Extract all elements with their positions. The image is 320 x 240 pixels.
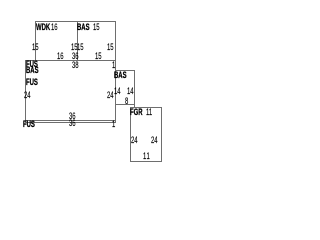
FGR box top edge <box>130 107 161 108</box>
label "WDK" at (36,22.5) <box>36 23 50 32</box>
label "FUS" at (23,119.8) <box>23 120 35 129</box>
small BAS box bottom edge <box>115 104 135 105</box>
small BAS box top edge <box>115 70 135 71</box>
big box top edge <box>25 60 115 61</box>
label "14" at (114,86.8) <box>114 87 121 96</box>
label "15" at (77.2,43) <box>77 43 84 52</box>
label "24" at (151,136) <box>151 136 158 145</box>
big box left edge <box>25 60 26 123</box>
label "24" at (23.7,90.8) <box>24 91 31 100</box>
label "15" at (32.3,43) <box>32 43 39 52</box>
label "BAS" at (25.5,66.3) <box>26 66 39 75</box>
label "1" at (111.9,119.8) <box>112 120 115 129</box>
big box bottom edge <box>25 120 115 121</box>
FGR box bottom edge <box>130 161 161 162</box>
label "36" at (68.5,119.3) <box>69 119 76 128</box>
label "11" at (146,107.9) <box>146 108 152 117</box>
label "BAS" at (114.2,71.3) <box>114 71 127 80</box>
WDK/BAS top boxes: top edge <box>35 21 115 22</box>
label "15" at (93.3,22.5) <box>93 23 100 32</box>
label "36" at (72.2,51.5) <box>72 52 79 61</box>
label "24" at (107,90.8) <box>107 91 114 100</box>
FGR right edge <box>161 107 162 162</box>
label "FUS" at (25.5,77.8) <box>26 78 38 87</box>
WDK/BAS divider <box>77 21 78 60</box>
label "16" at (57.2,51.5) <box>57 52 64 61</box>
label "36" at (68.5,112.3) <box>69 112 76 121</box>
label "8" at (124.7,97.3) <box>125 97 128 106</box>
label "FGR" at (130.3,107.9) <box>130 108 143 117</box>
label "15" at (94.6,51.5) <box>95 52 102 61</box>
label "16" at (50.5,22.5) <box>51 23 58 32</box>
label "1" at (111.6,60.5) <box>112 61 115 70</box>
label "FUS" at (25.5,59.8) <box>26 60 38 69</box>
label "15" at (70.5,43) <box>71 43 78 52</box>
FGR left edge <box>130 107 131 162</box>
label "15" at (107,43) <box>107 43 114 52</box>
WDK left edge <box>35 21 36 60</box>
label "BAS" at (76.8,22.5) <box>77 23 90 32</box>
right edge (top boxes + big box + strip) <box>115 21 116 123</box>
label "38" at (71.8,60.5) <box>72 61 79 70</box>
small BAS right edge <box>134 70 135 107</box>
FUS strip bottom edge <box>25 122 115 123</box>
label "24" at (130.8,135.6) <box>131 136 138 145</box>
label "11" at (143,151.8) <box>143 152 150 161</box>
label "14" at (126.5,86.8) <box>127 87 134 96</box>
